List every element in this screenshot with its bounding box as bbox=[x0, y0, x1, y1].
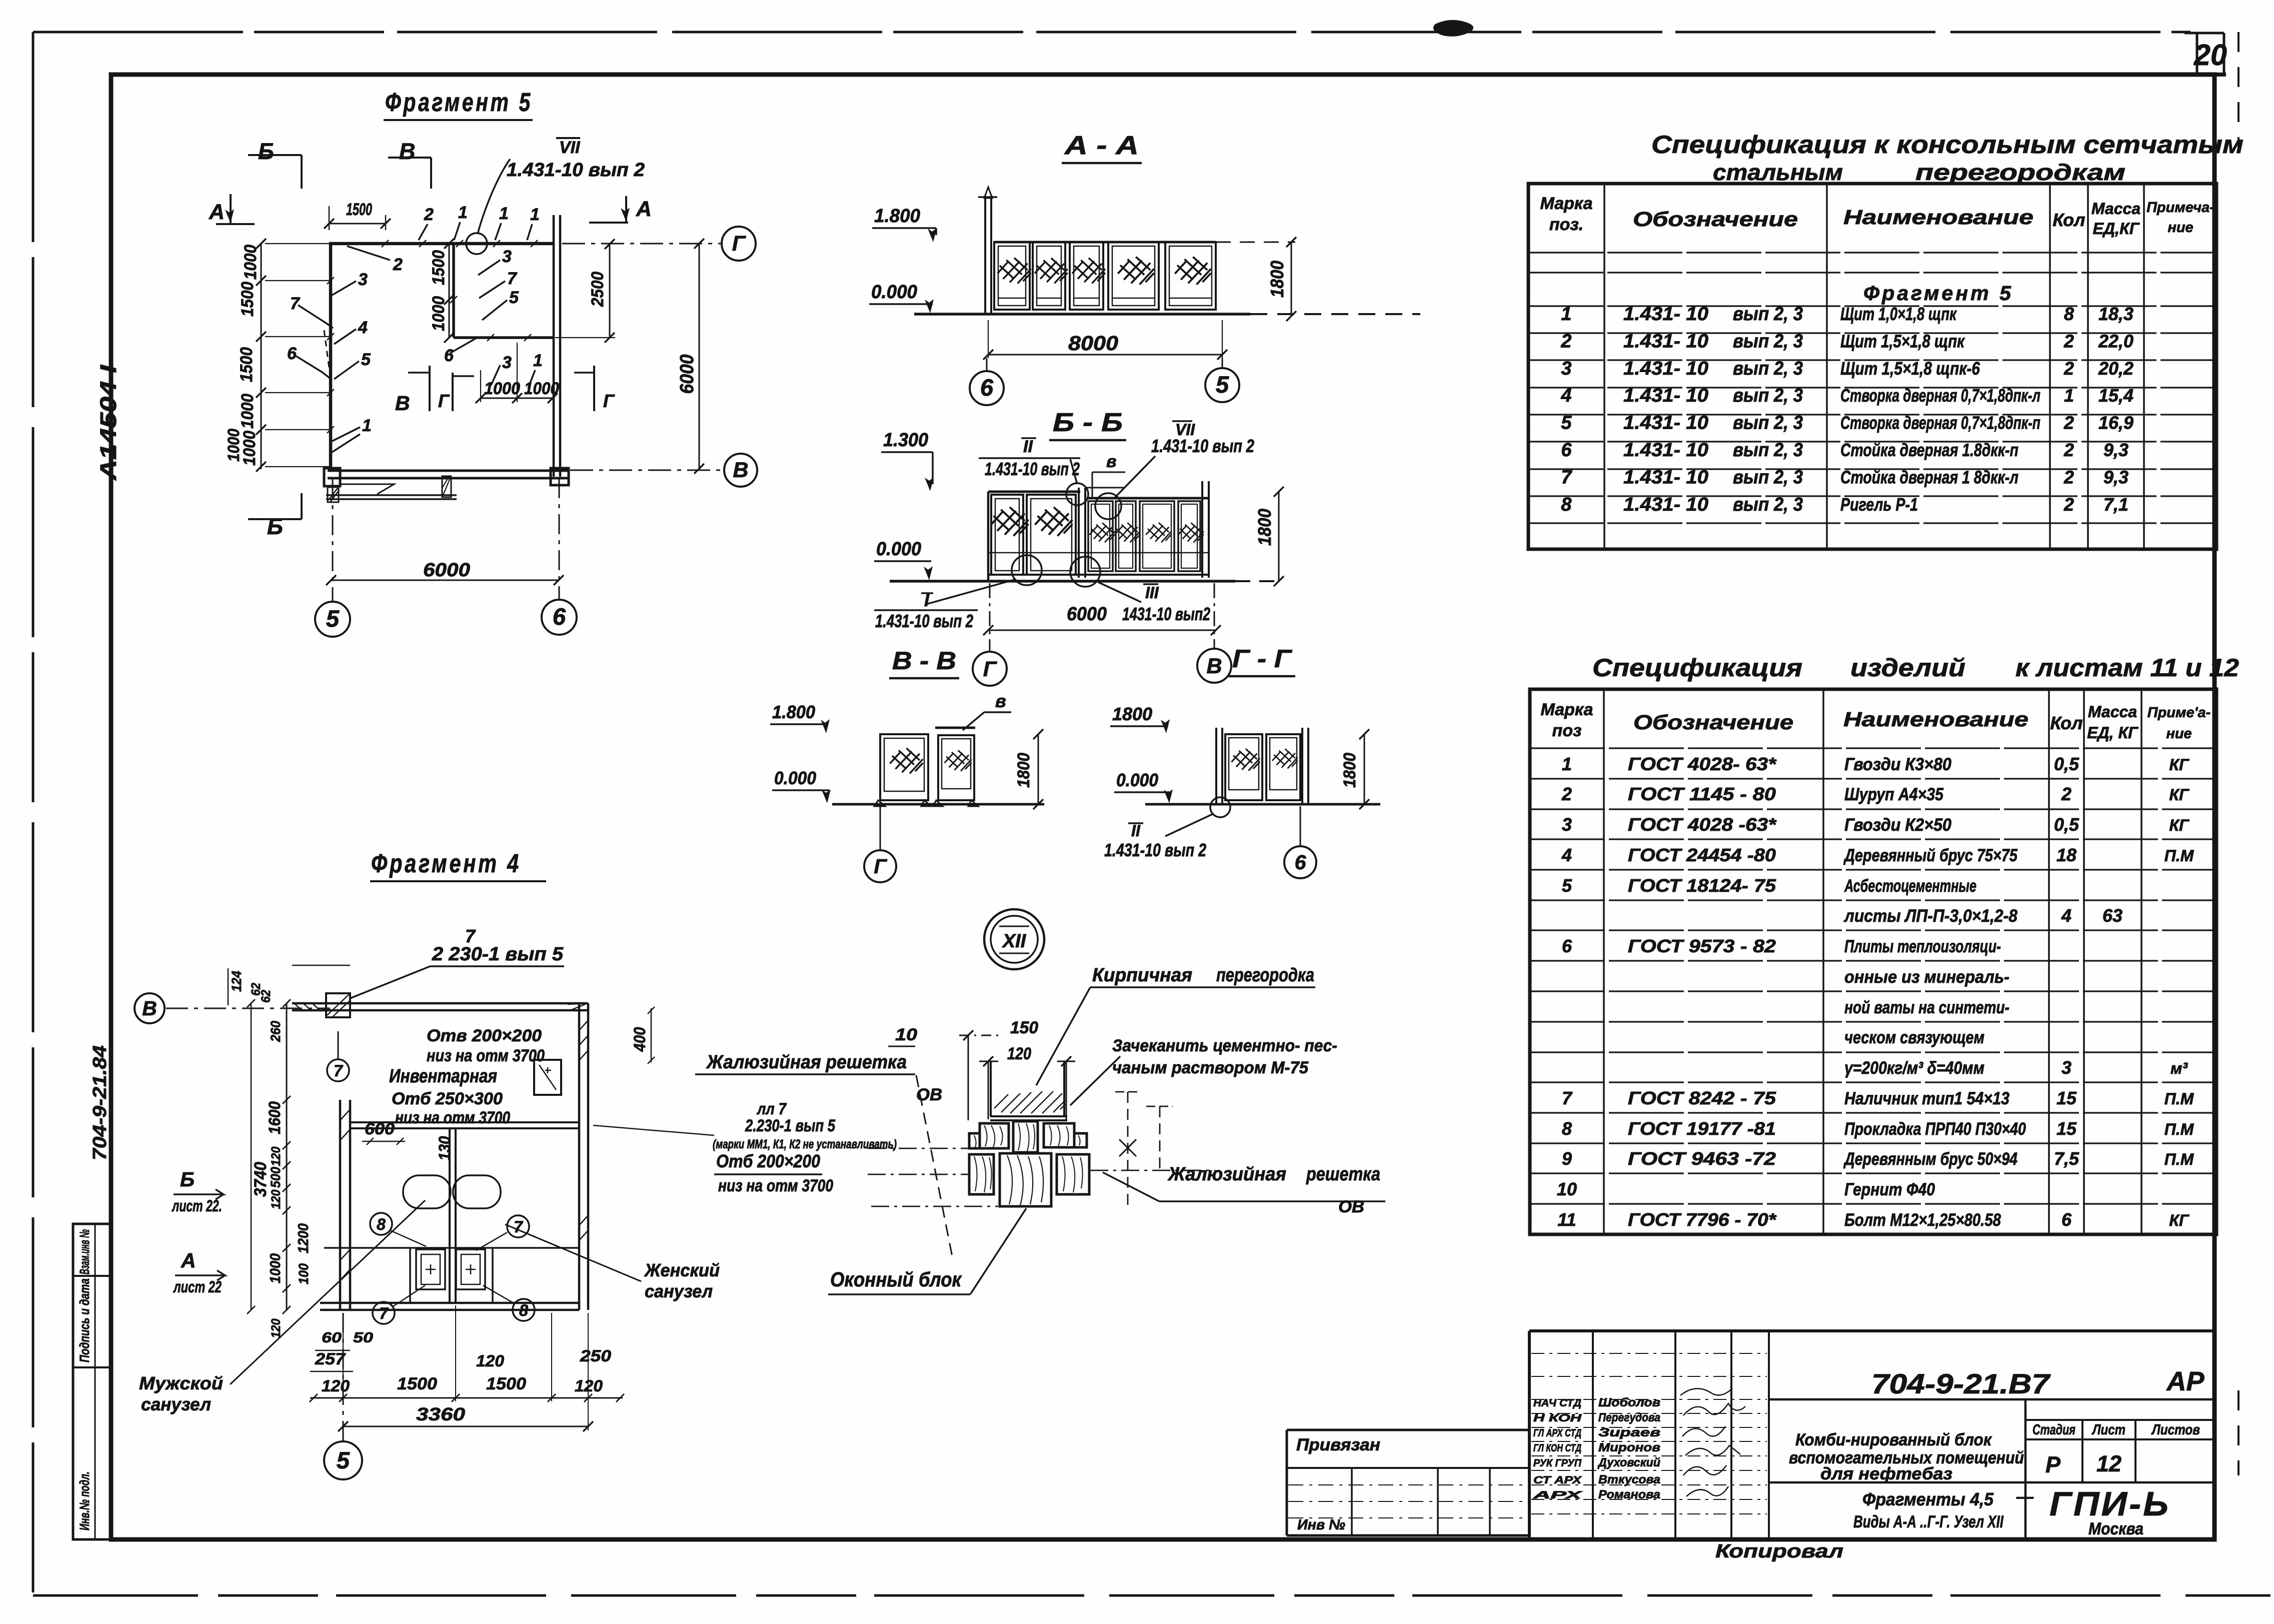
svg-text:1000: 1000 bbox=[238, 394, 257, 429]
svg-text:КГ: КГ bbox=[2169, 786, 2189, 804]
svg-text:5: 5 bbox=[509, 288, 519, 307]
svg-text:1.800: 1.800 bbox=[874, 206, 920, 227]
dim 1800 GG bbox=[1340, 729, 1369, 809]
svg-text:Г: Г bbox=[983, 657, 997, 681]
svg-text:Кирпичная: Кирпичная bbox=[1092, 965, 1192, 986]
dim 1500 top bbox=[324, 200, 391, 230]
svg-text:8: 8 bbox=[377, 1215, 386, 1233]
svg-text:Гернит Ф40: Гернит Ф40 bbox=[1844, 1180, 1935, 1199]
svg-text:вып 2, 3: вып 2, 3 bbox=[1733, 331, 1803, 352]
svg-text:7: 7 bbox=[1561, 467, 1572, 488]
svg-text:γ=200кг/м³ δ=40мм: γ=200кг/м³ δ=40мм bbox=[1844, 1058, 1984, 1078]
svg-text:СТ АРХ: СТ АРХ bbox=[1533, 1474, 1583, 1486]
svg-text:ГОСТ 4028 -63*: ГОСТ 4028 -63* bbox=[1628, 814, 1777, 835]
kopiroval bbox=[1715, 1541, 1843, 1562]
svg-text:120: 120 bbox=[1007, 1044, 1031, 1063]
svg-text:1: 1 bbox=[1562, 754, 1572, 774]
svg-text:Н КОН: Н КОН bbox=[1533, 1412, 1582, 1424]
dim chain interior 1500 1000 bbox=[429, 239, 454, 343]
svg-text:1500: 1500 bbox=[346, 200, 372, 219]
svg-text:7: 7 bbox=[334, 1062, 344, 1080]
svg-text:0,5: 0,5 bbox=[2054, 814, 2079, 835]
sheet number box 20 bbox=[2184, 33, 2227, 77]
axis bubble 5 fragment5 bbox=[315, 602, 350, 637]
svg-text:Спецификация к консольным с: Спецификация к консольным сетчатым bbox=[1651, 131, 2243, 159]
svg-text:санузел: санузел bbox=[141, 1394, 211, 1414]
svg-text:низ на отм 3700: низ на отм 3700 bbox=[395, 1108, 510, 1127]
svg-text:1000: 1000 bbox=[484, 379, 520, 398]
svg-text:Масса: Масса bbox=[2088, 703, 2137, 721]
svg-text:1000: 1000 bbox=[240, 431, 259, 466]
svg-text:Шуруп А4×35: Шуруп А4×35 bbox=[1844, 785, 1943, 804]
svg-text:низ на отм 3700: низ на отм 3700 bbox=[718, 1176, 833, 1195]
section mark V top bbox=[388, 139, 431, 189]
svg-text:П.М: П.М bbox=[2164, 1090, 2194, 1108]
svg-text:ГОСТ 4028- 63*: ГОСТ 4028- 63* bbox=[1628, 754, 1777, 774]
svg-text:1.300: 1.300 bbox=[883, 430, 928, 451]
dashes right AA bbox=[1216, 242, 1295, 243]
outer dashed border top bbox=[33, 31, 2190, 34]
svg-text:ГОСТ 19177 -81: ГОСТ 19177 -81 bbox=[1628, 1118, 1776, 1139]
svg-text:в: в bbox=[995, 691, 1006, 711]
svg-text:7: 7 bbox=[379, 1304, 389, 1322]
label jalousie right bbox=[1103, 1164, 1385, 1216]
svg-text:Фрагменты 4,5: Фрагменты 4,5 bbox=[1862, 1489, 1994, 1509]
label III BB bbox=[1098, 582, 1210, 624]
label jensky sanuzel bbox=[505, 1224, 720, 1301]
svg-text:500: 500 bbox=[268, 1167, 283, 1188]
svg-text:П.М: П.М bbox=[2164, 847, 2194, 865]
svg-text:8: 8 bbox=[1562, 1118, 1572, 1139]
svg-text:Копировал: Копировал bbox=[1715, 1541, 1843, 1562]
table1 rows bbox=[1560, 304, 2133, 515]
detail VII label bbox=[466, 138, 645, 254]
svg-text:Щит 1,5×1,8 щпк-6: Щит 1,5×1,8 щпк-6 bbox=[1840, 358, 1980, 379]
label brick partition bbox=[1036, 965, 1315, 1085]
section marks V G interior bbox=[395, 366, 615, 415]
axis dashes node right bbox=[1090, 1092, 1215, 1206]
node XII marker bbox=[984, 909, 1044, 969]
svg-text:НАЧ СТД: НАЧ СТД bbox=[1533, 1397, 1581, 1409]
svg-text:Стойка дверная 1.8дкк-п: Стойка дверная 1.8дкк-п bbox=[1840, 440, 2018, 460]
svg-text:1800: 1800 bbox=[1267, 261, 1287, 298]
axis bubble V BB bbox=[1197, 583, 1231, 683]
svg-text:1.431- 10: 1.431- 10 bbox=[1623, 358, 1708, 379]
svg-text:Б: Б bbox=[267, 514, 283, 539]
project name bbox=[1789, 1430, 2024, 1483]
title fragment 5 bbox=[384, 88, 533, 120]
wall top fragment5 bbox=[329, 240, 553, 247]
svg-text:В: В bbox=[395, 392, 410, 415]
dim 6000 BB bbox=[983, 604, 1221, 635]
svg-text:Гвозди К3×80: Гвозди К3×80 bbox=[1844, 755, 1951, 774]
svg-text:Плиты теплоизоляци-: Плиты теплоизоляци- bbox=[1844, 937, 2001, 956]
axis bubble G BB bbox=[973, 583, 1007, 686]
title G-G bbox=[1228, 645, 1295, 676]
svg-text:62: 62 bbox=[259, 990, 273, 1003]
svg-text:вып 2, 3: вып 2, 3 bbox=[1733, 385, 1803, 406]
svg-text:Инвентарная: Инвентарная bbox=[389, 1066, 497, 1087]
panels BB bbox=[988, 481, 1210, 581]
svg-text:0.000: 0.000 bbox=[876, 539, 921, 560]
svg-text:10: 10 bbox=[1557, 1179, 1577, 1199]
leader labels interior left bbox=[287, 270, 372, 452]
svg-text:Жалюзийная решетка: Жалюзийная решетка bbox=[706, 1052, 907, 1073]
elevation 0.000 GG bbox=[1114, 770, 1173, 803]
svg-text:А - А: А - А bbox=[1064, 131, 1139, 160]
dims top small fragment4 bbox=[228, 965, 350, 1042]
svg-text:ГПИ-Ь: ГПИ-Ь bbox=[2049, 1485, 2170, 1523]
svg-text:1600: 1600 bbox=[266, 1101, 284, 1134]
svg-text:7: 7 bbox=[465, 926, 476, 946]
svg-text:КГ: КГ bbox=[2169, 1211, 2189, 1229]
svg-text:Гвозди К2×50: Гвозди К2×50 bbox=[1844, 815, 1951, 835]
svg-text:Р: Р bbox=[2045, 1452, 2061, 1477]
svg-text:8: 8 bbox=[519, 1301, 528, 1319]
svg-text:2: 2 bbox=[2063, 413, 2074, 433]
svg-text:1800: 1800 bbox=[1014, 753, 1033, 788]
partition interior horizontal bbox=[454, 334, 553, 341]
svg-text:Деревянным брус 50×94: Деревянным брус 50×94 bbox=[1843, 1149, 2017, 1169]
wood blocks node bbox=[969, 1121, 1089, 1206]
wall right fragment5 bbox=[554, 215, 560, 477]
svg-text:7: 7 bbox=[514, 1218, 524, 1236]
svg-text:7,1: 7,1 bbox=[2103, 494, 2128, 515]
svg-text:1431-10 вып2: 1431-10 вып2 bbox=[1122, 604, 1210, 624]
svg-text:Москва: Москва bbox=[2088, 1519, 2143, 1538]
elevation 0.000 AA bbox=[869, 282, 934, 313]
panels GG bbox=[1216, 728, 1308, 804]
svg-text:5: 5 bbox=[1561, 413, 1572, 434]
svg-text:4: 4 bbox=[1561, 845, 1572, 865]
table1 fragment5 row bbox=[1863, 282, 2013, 305]
svg-text:Деревянный брус 75×75: Деревянный брус 75×75 bbox=[1843, 846, 2018, 865]
svg-text:онные из минераль-: онные из минераль- bbox=[1844, 967, 2009, 987]
doc code 704-9-21.B7 bbox=[1871, 1368, 2051, 1399]
svg-text:для нефтебаз: для нефтебаз bbox=[1820, 1464, 1952, 1483]
walls fragment4 bbox=[292, 1002, 588, 1310]
dim 1800 VV bbox=[1014, 729, 1043, 809]
svg-text:Наличник тип1 54×13: Наличник тип1 54×13 bbox=[1844, 1089, 2009, 1108]
bubbles fragment4 bbox=[370, 1213, 535, 1324]
svg-text:решетка: решетка bbox=[1306, 1164, 1380, 1185]
svg-text:1.431-10 вып 2: 1.431-10 вып 2 bbox=[507, 160, 645, 181]
dim chain left fragment4 bbox=[247, 999, 312, 1338]
svg-text:1.431-10 вып 2: 1.431-10 вып 2 bbox=[1151, 436, 1254, 456]
svg-text:2: 2 bbox=[2063, 358, 2074, 379]
title V-V bbox=[889, 647, 959, 678]
svg-text:1.800: 1.800 bbox=[772, 702, 815, 722]
text cluster mm7 bbox=[593, 1100, 897, 1195]
svg-text:вып 2, 3: вып 2, 3 bbox=[1733, 413, 1803, 434]
table2 rows bbox=[1557, 754, 2194, 1230]
svg-text:АРХ: АРХ bbox=[1532, 1489, 1584, 1501]
label zachekanit bbox=[1070, 1036, 1337, 1105]
svg-text:10: 10 bbox=[895, 1025, 917, 1044]
svg-text:2: 2 bbox=[393, 255, 403, 274]
svg-text:1800: 1800 bbox=[1340, 753, 1359, 788]
svg-text:поз: поз bbox=[1552, 721, 1582, 740]
svg-text:Романова: Романова bbox=[1598, 1488, 1660, 1501]
svg-text:1800: 1800 bbox=[1254, 509, 1275, 546]
title fragment 4 bbox=[370, 849, 546, 881]
ground line AA bbox=[914, 313, 1420, 316]
margin album text bbox=[96, 364, 121, 481]
svg-text:18,3: 18,3 bbox=[2098, 304, 2133, 324]
svg-text:2: 2 bbox=[2063, 440, 2074, 460]
svg-text:изделий: изделий bbox=[1850, 654, 1965, 682]
svg-text:Мужской: Мужской bbox=[139, 1373, 223, 1393]
svg-text:7,5: 7,5 bbox=[2054, 1148, 2079, 1169]
svg-text:3: 3 bbox=[1561, 358, 1571, 379]
svg-text:6000: 6000 bbox=[677, 355, 698, 394]
svg-text:Спецификация: Спецификация bbox=[1592, 654, 1802, 682]
svg-text:низ на отм 3700: низ на отм 3700 bbox=[427, 1046, 545, 1065]
svg-text:Б: Б bbox=[180, 1168, 195, 1191]
svg-text:ной ваты на синтети-: ной ваты на синтети- bbox=[1844, 998, 2009, 1017]
svg-text:Масса: Масса bbox=[2091, 200, 2140, 218]
svg-text:Жалюзийная: Жалюзийная bbox=[1167, 1164, 1286, 1185]
axis bubble 6 AA bbox=[970, 358, 1004, 405]
svg-text:1.431- 10: 1.431- 10 bbox=[1623, 385, 1708, 406]
svg-text:ГОСТ 18124- 75: ГОСТ 18124- 75 bbox=[1628, 875, 1776, 896]
org GPI-6 bbox=[2049, 1485, 2170, 1538]
svg-text:Г: Г bbox=[874, 855, 887, 878]
axis line G fragment5 bbox=[562, 227, 756, 261]
svg-text:чаным раствором М-75: чаным раствором М-75 bbox=[1112, 1058, 1309, 1077]
svg-text:20: 20 bbox=[2193, 39, 2227, 72]
svg-text:Лист: Лист bbox=[2091, 1422, 2125, 1438]
svg-text:Кол: Кол bbox=[2052, 210, 2085, 230]
svg-text:2.230-1 вып 5: 2.230-1 вып 5 bbox=[745, 1116, 836, 1135]
svg-text:120: 120 bbox=[476, 1352, 504, 1370]
svg-text:1: 1 bbox=[533, 351, 543, 370]
section mark B top bbox=[248, 139, 302, 189]
svg-text:124: 124 bbox=[229, 971, 244, 992]
dim 6000 bottom fragment5 bbox=[326, 478, 564, 601]
svg-text:Створка дверная 0,7×1,8дпк-л: Створка дверная 0,7×1,8дпк-л bbox=[1840, 385, 2040, 406]
svg-text:Миронов: Миронов bbox=[1598, 1441, 1660, 1454]
svg-text:2: 2 bbox=[1561, 784, 1572, 804]
svg-text:ОВ: ОВ bbox=[1338, 1197, 1364, 1216]
svg-text:1: 1 bbox=[1561, 304, 1571, 325]
svg-text:120: 120 bbox=[269, 1318, 283, 1338]
svg-text:Г: Г bbox=[732, 232, 746, 256]
svg-text:КГ: КГ bbox=[2169, 816, 2189, 834]
privyazan table bbox=[1287, 1430, 1529, 1535]
svg-text:В: В bbox=[1206, 654, 1222, 678]
label mujskoy sanuzel bbox=[139, 1200, 425, 1414]
svg-text:1500: 1500 bbox=[429, 250, 448, 285]
svg-text:Отб 250×300: Отб 250×300 bbox=[392, 1089, 503, 1108]
svg-text:9,3: 9,3 bbox=[2103, 467, 2128, 487]
label 7 / 2 230-1 vyp 5 bbox=[350, 926, 564, 998]
svg-text:Г: Г bbox=[603, 391, 615, 411]
svg-text:листы ЛП-П-3,0×1,2-8: листы ЛП-П-3,0×1,2-8 bbox=[1843, 906, 2017, 926]
label v VV bbox=[963, 691, 1011, 730]
dims 150 120 node bbox=[959, 1018, 1075, 1120]
svg-text:Наименование: Наименование bbox=[1843, 708, 2028, 731]
dim 2500 bbox=[555, 239, 615, 343]
svg-text:2 230-1 вып 5: 2 230-1 вып 5 bbox=[432, 944, 564, 965]
svg-text:(марки ММ1, К1, К2 не устанавл: (марки ММ1, К1, К2 не устанавливать) bbox=[713, 1137, 897, 1151]
title B-B bbox=[1049, 408, 1126, 440]
section mark A left bbox=[209, 194, 255, 224]
svg-text:В - В: В - В bbox=[892, 647, 956, 675]
svg-text:1000: 1000 bbox=[524, 379, 559, 398]
axis dashes node left bbox=[868, 1148, 998, 1206]
svg-text:5: 5 bbox=[1216, 371, 1229, 398]
svg-text:15: 15 bbox=[2056, 1118, 2077, 1139]
svg-text:VII: VII bbox=[559, 138, 581, 157]
svg-text:8: 8 bbox=[2064, 304, 2074, 324]
partition interior vertical bbox=[450, 244, 457, 338]
svg-text:15,4: 15,4 bbox=[2098, 385, 2133, 406]
svg-text:4: 4 bbox=[358, 318, 368, 337]
svg-text:Приме'а-: Приме'а- bbox=[2147, 705, 2211, 721]
svg-text:ГЛ КОН СТД: ГЛ КОН СТД bbox=[1533, 1442, 1581, 1454]
scan smudge top bbox=[1433, 20, 1473, 37]
svg-text:50: 50 bbox=[353, 1330, 373, 1346]
axis bubble V fragment4 bbox=[135, 993, 330, 1023]
label II BB bbox=[979, 437, 1080, 484]
svg-text:А14504 I: А14504 I bbox=[96, 364, 121, 481]
margin doc number text bbox=[90, 1045, 111, 1160]
leader labels interior right bbox=[347, 246, 543, 388]
svg-text:Прокладка ПРП40 П30×40: Прокладка ПРП40 П30×40 bbox=[1844, 1119, 2026, 1139]
svg-text:к листам 11 и 12: к листам 11 и 12 bbox=[2015, 654, 2239, 682]
svg-text:1000: 1000 bbox=[268, 1253, 284, 1283]
svg-text:1.431-10 вып 2: 1.431-10 вып 2 bbox=[875, 611, 973, 631]
axis bubble 6 fragment5 bbox=[542, 600, 577, 635]
svg-text:5: 5 bbox=[361, 350, 371, 369]
elevation 0.000 VV bbox=[772, 768, 831, 803]
dim 8000 AA bbox=[983, 320, 1227, 360]
svg-text:Ригель Р-1: Ригель Р-1 bbox=[1840, 494, 1918, 515]
svg-text:6: 6 bbox=[1295, 851, 1307, 874]
label VII BB bbox=[1114, 421, 1254, 498]
svg-text:Наименование: Наименование bbox=[1843, 206, 2033, 229]
brick section node bbox=[990, 1061, 1067, 1120]
svg-text:ГОСТ 9573 - 82: ГОСТ 9573 - 82 bbox=[1628, 936, 1776, 956]
texts fragment4 interior bbox=[362, 1026, 545, 1161]
svg-text:ГОСТ 8242 - 75: ГОСТ 8242 - 75 bbox=[1628, 1088, 1776, 1108]
svg-text:6000: 6000 bbox=[423, 560, 470, 581]
svg-text:Створка дверная 0,7×1,8дпк-п: Створка дверная 0,7×1,8дпк-п bbox=[1840, 413, 2040, 433]
svg-text:1.431- 10: 1.431- 10 bbox=[1623, 494, 1708, 515]
svg-text:Б: Б bbox=[258, 139, 274, 164]
sheet name bbox=[1853, 1487, 2034, 1531]
svg-text:вып 2, 3: вып 2, 3 bbox=[1733, 304, 1803, 325]
svg-text:Вткусова: Вткусова bbox=[1598, 1473, 1660, 1486]
svg-text:704-9-21.84: 704-9-21.84 bbox=[90, 1045, 111, 1160]
svg-text:8000: 8000 bbox=[1068, 332, 1118, 355]
svg-text:ГОСТ 24454 -80: ГОСТ 24454 -80 bbox=[1628, 845, 1776, 865]
svg-text:Стадия: Стадия bbox=[2032, 1422, 2075, 1438]
dims 1000 1000 interior bbox=[476, 343, 559, 403]
svg-text:Женский: Женский bbox=[644, 1260, 720, 1280]
svg-text:ГОСТ 9463 -72: ГОСТ 9463 -72 bbox=[1628, 1148, 1776, 1169]
svg-text:Щит 1,5×1,8 щпк: Щит 1,5×1,8 щпк bbox=[1840, 331, 1965, 351]
svg-text:1: 1 bbox=[499, 204, 509, 223]
door swing dashed bbox=[324, 330, 332, 386]
svg-text:ЕД, КГ: ЕД, КГ bbox=[2087, 724, 2138, 742]
svg-text:120: 120 bbox=[322, 1377, 350, 1395]
svg-text:перегородкам: перегородкам bbox=[1915, 160, 2125, 185]
svg-text:Фрагмент 4: Фрагмент 4 bbox=[371, 849, 521, 878]
axis line V fragment5 bbox=[570, 454, 757, 487]
svg-text:3: 3 bbox=[358, 270, 368, 289]
svg-text:Асбестоцементные: Асбестоцементные bbox=[1844, 876, 1976, 896]
svg-text:Инв №: Инв № bbox=[1297, 1517, 1345, 1533]
table2 grid bbox=[1530, 689, 2216, 1234]
section mark B bottom bbox=[248, 493, 302, 539]
dims bottom fragment4 bbox=[310, 1305, 624, 1431]
dim 1800 right AA bbox=[1267, 237, 1296, 321]
svg-text:Кол: Кол bbox=[2050, 713, 2082, 733]
svg-text:лист 22: лист 22 bbox=[173, 1278, 222, 1296]
svg-text:257: 257 bbox=[315, 1350, 347, 1368]
ground line GG bbox=[1145, 803, 1380, 806]
wall left partition fragment5 bbox=[327, 244, 334, 469]
svg-text:Болт М12×1,25×80.58: Болт М12×1,25×80.58 bbox=[1844, 1210, 2001, 1230]
elevation 1.800 VV bbox=[770, 702, 830, 733]
svg-text:18: 18 bbox=[2056, 845, 2076, 865]
svg-text:5: 5 bbox=[1562, 875, 1572, 896]
svg-text:1200: 1200 bbox=[296, 1223, 312, 1253]
ref A list22 bbox=[173, 1249, 225, 1296]
svg-text:130: 130 bbox=[436, 1136, 454, 1160]
table1 header bbox=[1540, 194, 2214, 238]
svg-text:150: 150 bbox=[1010, 1018, 1038, 1037]
svg-text:Отв 200×200: Отв 200×200 bbox=[427, 1026, 542, 1045]
svg-text:II: II bbox=[1023, 437, 1033, 456]
svg-text:Привязан: Привязан bbox=[1296, 1435, 1380, 1454]
svg-text:Зачеканить цементно- пес-: Зачеканить цементно- пес- bbox=[1112, 1036, 1337, 1055]
axis bubble 6 GG bbox=[1284, 806, 1316, 878]
svg-text:II: II bbox=[1131, 822, 1141, 840]
svg-text:20,2: 20,2 bbox=[2098, 358, 2133, 379]
svg-text:7: 7 bbox=[290, 294, 301, 313]
panels AA bbox=[994, 242, 1216, 310]
svg-text:стальным: стальным bbox=[1713, 160, 1843, 185]
wall bottom fragment5 bbox=[324, 468, 569, 502]
svg-text:А: А bbox=[181, 1249, 196, 1272]
svg-text:120: 120 bbox=[575, 1377, 603, 1395]
svg-text:9,3: 9,3 bbox=[2103, 440, 2128, 460]
elevation 1.800 AA bbox=[872, 206, 937, 242]
svg-text:Примеча-: Примеча- bbox=[2146, 200, 2214, 216]
ground line VV bbox=[832, 803, 1044, 806]
dim 1800 right BB bbox=[1254, 487, 1284, 586]
stage strip bbox=[2032, 1422, 2200, 1477]
svg-text:1: 1 bbox=[362, 416, 372, 435]
label v small BB bbox=[1092, 452, 1125, 497]
svg-text:1.431-10 вып 2: 1.431-10 вып 2 bbox=[985, 459, 1080, 479]
svg-text:ние: ние bbox=[2167, 220, 2193, 236]
svg-text:Комби-нированный блок: Комби-нированный блок bbox=[1795, 1430, 1992, 1449]
svg-text:в: в bbox=[1106, 452, 1117, 471]
svg-text:—: — bbox=[2016, 1487, 2034, 1506]
svg-text:ГОСТ 7796 - 70*: ГОСТ 7796 - 70* bbox=[1628, 1209, 1777, 1230]
svg-text:0,5: 0,5 bbox=[2054, 754, 2079, 774]
svg-text:1800: 1800 bbox=[1112, 704, 1152, 724]
label I BB bbox=[874, 579, 1016, 631]
svg-text:Марка: Марка bbox=[1540, 194, 1593, 213]
axis bubble G VV bbox=[864, 806, 896, 882]
fixtures fragment4 bbox=[403, 1175, 501, 1289]
svg-text:Перегудова: Перегудова bbox=[1598, 1411, 1660, 1424]
